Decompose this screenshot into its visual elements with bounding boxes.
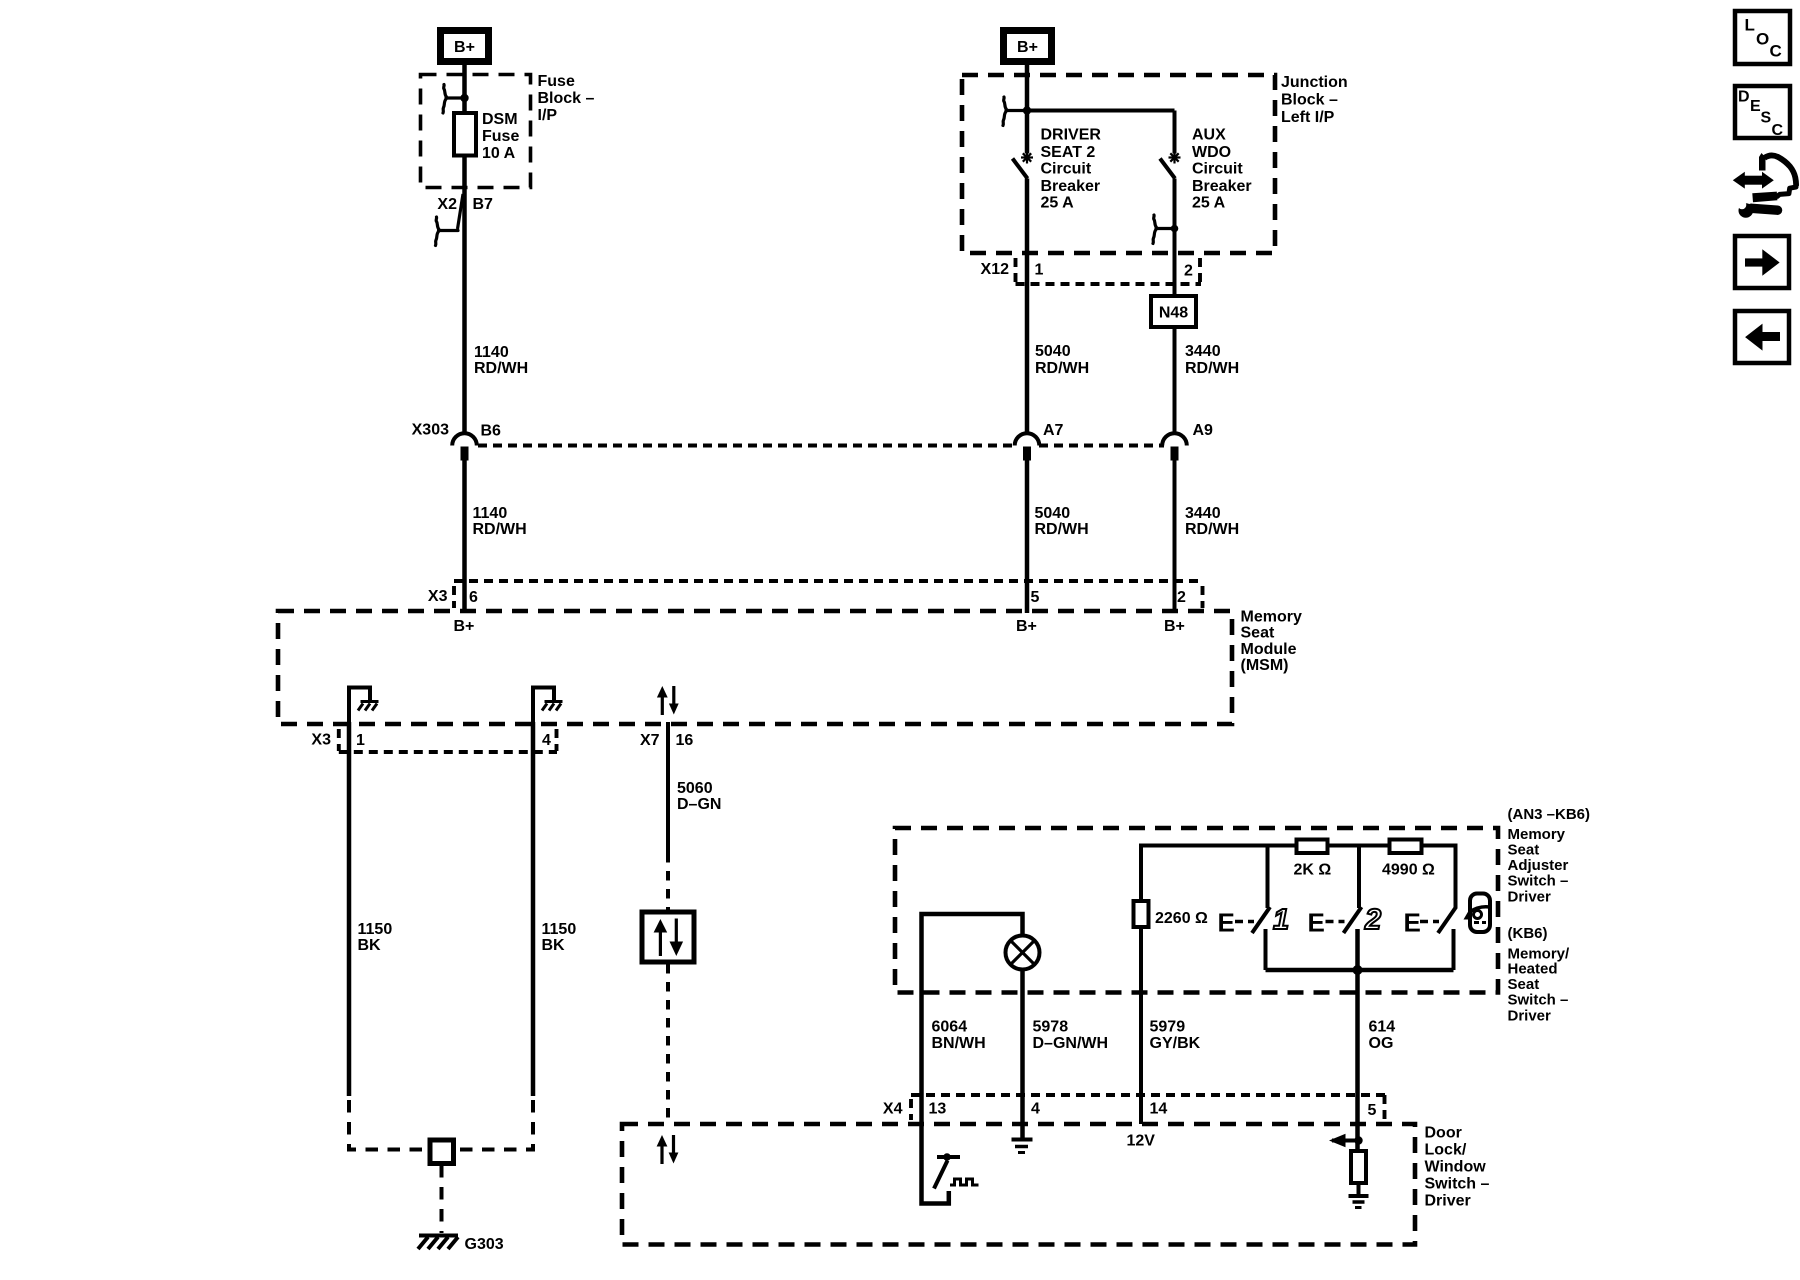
svg-text:Circuit: Circuit	[1041, 161, 1092, 178]
svg-text:Block –: Block –	[1281, 92, 1338, 109]
svg-text:RD/WH: RD/WH	[1185, 360, 1239, 377]
svg-text:4: 4	[542, 732, 551, 749]
svg-text:OG: OG	[1369, 1035, 1394, 1052]
svg-text:2: 2	[1177, 589, 1186, 606]
svg-text:5978: 5978	[1033, 1019, 1069, 1036]
svg-text:D–GN/WH: D–GN/WH	[1033, 1035, 1109, 1052]
svg-text:S: S	[1761, 110, 1772, 127]
svg-text:X303: X303	[412, 422, 449, 439]
svg-text:Switch –: Switch –	[1508, 873, 1569, 890]
svg-text:C: C	[1772, 122, 1784, 139]
svg-text:RD/WH: RD/WH	[1185, 521, 1239, 538]
svg-text:5040: 5040	[1035, 343, 1071, 360]
svg-text:Junction: Junction	[1281, 74, 1348, 91]
svg-text:14: 14	[1150, 1101, 1168, 1118]
svg-text:DRIVER: DRIVER	[1041, 127, 1102, 144]
svg-text:Memory: Memory	[1241, 609, 1302, 626]
svg-text:N48: N48	[1159, 305, 1188, 322]
svg-text:1140: 1140	[473, 505, 508, 522]
svg-text:1150: 1150	[542, 921, 577, 938]
svg-text:Memory: Memory	[1508, 826, 1566, 843]
svg-text:BK: BK	[542, 937, 566, 954]
svg-text:RD/WH: RD/WH	[474, 360, 528, 377]
svg-text:Breaker: Breaker	[1041, 178, 1101, 195]
svg-text:BN/WH: BN/WH	[932, 1035, 986, 1052]
svg-text:1150: 1150	[358, 921, 393, 938]
svg-text:Seat: Seat	[1508, 842, 1540, 859]
svg-text:(MSM): (MSM)	[1241, 657, 1289, 674]
svg-text:5060: 5060	[677, 780, 713, 797]
svg-text:RD/WH: RD/WH	[1035, 521, 1089, 538]
svg-text:5979: 5979	[1150, 1019, 1186, 1036]
svg-text:3440: 3440	[1185, 343, 1221, 360]
svg-text:5040: 5040	[1035, 505, 1071, 522]
svg-text:B+: B+	[1017, 39, 1038, 56]
svg-text:6: 6	[469, 589, 478, 606]
svg-text:Window: Window	[1425, 1159, 1487, 1176]
svg-text:A9: A9	[1193, 422, 1214, 439]
svg-text:E: E	[1218, 908, 1235, 938]
svg-text:C: C	[1770, 42, 1782, 61]
svg-text:Driver: Driver	[1508, 889, 1552, 906]
svg-text:WDO: WDO	[1192, 144, 1231, 161]
svg-text:6064: 6064	[932, 1019, 968, 1036]
svg-text:O: O	[1756, 30, 1769, 49]
svg-text:5: 5	[1031, 589, 1040, 606]
svg-text:Block –: Block –	[538, 90, 595, 107]
svg-text:B6: B6	[481, 423, 502, 440]
svg-text:D: D	[1738, 89, 1750, 106]
svg-text:(AN3 –KB6): (AN3 –KB6)	[1508, 806, 1591, 823]
svg-text:DSM: DSM	[482, 111, 518, 128]
svg-text:13: 13	[929, 1101, 947, 1118]
svg-text:Driver: Driver	[1425, 1193, 1471, 1210]
svg-text:Lock/: Lock/	[1425, 1142, 1467, 1159]
svg-text:Heated: Heated	[1508, 961, 1558, 978]
svg-text:2260 Ω: 2260 Ω	[1155, 910, 1208, 927]
svg-text:1140: 1140	[474, 344, 509, 361]
svg-text:12V: 12V	[1127, 1133, 1156, 1150]
svg-text:X4: X4	[883, 1101, 903, 1118]
svg-text:2: 2	[1184, 263, 1193, 280]
svg-text:3440: 3440	[1185, 505, 1221, 522]
svg-text:B+: B+	[1016, 618, 1037, 635]
svg-text:Switch –: Switch –	[1425, 1176, 1490, 1193]
svg-text:B+: B+	[454, 39, 475, 56]
svg-text:Seat: Seat	[1508, 976, 1540, 993]
svg-text:2K Ω: 2K Ω	[1294, 862, 1332, 879]
svg-text:SEAT 2: SEAT 2	[1041, 144, 1096, 161]
svg-text:A7: A7	[1043, 422, 1064, 439]
svg-text:AUX: AUX	[1192, 127, 1226, 144]
svg-text:RD/WH: RD/WH	[473, 521, 527, 538]
svg-text:B+: B+	[1164, 618, 1185, 635]
svg-text:D–GN: D–GN	[677, 796, 721, 813]
svg-text:X7: X7	[640, 732, 660, 749]
svg-text:X3: X3	[428, 588, 448, 605]
svg-text:4990 Ω: 4990 Ω	[1382, 862, 1435, 879]
svg-text:X2: X2	[437, 196, 457, 213]
svg-text:614: 614	[1369, 1019, 1396, 1036]
svg-text:Circuit: Circuit	[1192, 161, 1243, 178]
svg-text:16: 16	[676, 732, 694, 749]
svg-text:BK: BK	[358, 937, 382, 954]
svg-text:1: 1	[356, 732, 365, 749]
svg-text:B7: B7	[473, 196, 494, 213]
svg-text:B+: B+	[454, 618, 475, 635]
svg-text:25 A: 25 A	[1192, 195, 1226, 212]
svg-text:E: E	[1750, 98, 1761, 115]
svg-text:X12: X12	[981, 261, 1010, 278]
svg-text:L: L	[1745, 16, 1755, 35]
svg-text:Breaker: Breaker	[1192, 178, 1252, 195]
svg-text:Fuse: Fuse	[538, 73, 575, 90]
svg-text:GY/BK: GY/BK	[1150, 1035, 1201, 1052]
svg-text:Switch –: Switch –	[1508, 992, 1569, 1009]
svg-text:Driver: Driver	[1508, 1008, 1552, 1025]
svg-text:Adjuster: Adjuster	[1508, 857, 1569, 874]
svg-text:E: E	[1308, 908, 1325, 938]
svg-text:1: 1	[1273, 904, 1289, 936]
svg-text:2: 2	[1364, 904, 1381, 936]
svg-text:5: 5	[1368, 1102, 1377, 1119]
svg-text:Fuse: Fuse	[482, 128, 519, 145]
svg-text:RD/WH: RD/WH	[1035, 360, 1089, 377]
svg-text:25 A: 25 A	[1041, 195, 1075, 212]
svg-text:E: E	[1404, 908, 1421, 938]
svg-text:G303: G303	[465, 1236, 504, 1253]
svg-text:10 A: 10 A	[482, 145, 516, 162]
svg-text:Seat: Seat	[1241, 625, 1275, 642]
svg-text:I/P: I/P	[538, 107, 558, 124]
svg-text:Door: Door	[1425, 1125, 1462, 1142]
svg-text:(KB6): (KB6)	[1508, 925, 1548, 942]
svg-text:4: 4	[1031, 1101, 1040, 1118]
svg-text:1: 1	[1035, 262, 1044, 279]
svg-text:X3: X3	[311, 732, 331, 749]
svg-text:Module: Module	[1241, 641, 1297, 658]
svg-text:Left I/P: Left I/P	[1281, 109, 1335, 126]
